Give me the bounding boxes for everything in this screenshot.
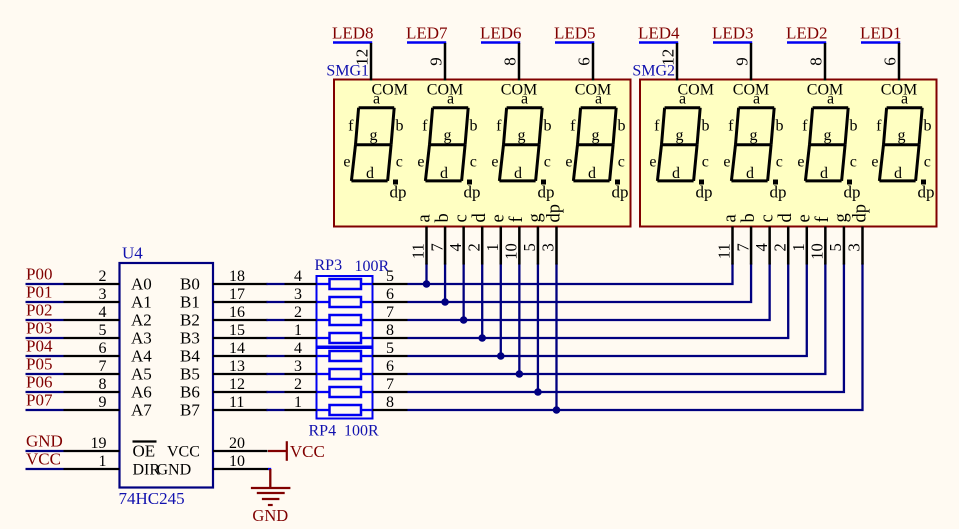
- SMG2 segment pin 11 (a): [715, 214, 741, 264]
- U4 pin name B7: [180, 401, 200, 420]
- svg-text:a: a: [679, 91, 686, 108]
- svg-text:g: g: [370, 127, 378, 144]
- U4 pin name GND: [157, 462, 192, 479]
- SMG1 digit 3 seven-segment symbol: [491, 82, 554, 202]
- U4 pin 3: [64, 286, 120, 303]
- svg-text:a: a: [827, 91, 834, 108]
- net label P03: [26, 319, 64, 339]
- svg-text:B0: B0: [180, 275, 200, 294]
- SMG2 digit 1 seven-segment symbol: [649, 82, 714, 202]
- svg-text:8: 8: [807, 57, 826, 66]
- svg-text:f: f: [348, 117, 354, 134]
- svg-text:8: 8: [386, 322, 394, 339]
- RP4 resistor element 3: [317, 387, 373, 397]
- junction: [516, 370, 524, 378]
- svg-text:4: 4: [294, 340, 302, 357]
- svg-text:P04: P04: [26, 337, 53, 356]
- power symbol VCC (U4 pin 20): [268, 441, 325, 461]
- resistor pack RP4 body: [317, 348, 373, 419]
- U4 pin name B1: [180, 293, 200, 312]
- svg-text:c: c: [757, 214, 777, 222]
- SMG2 segment pin 5 (g): [826, 213, 852, 264]
- SMG2 COM pin 8: [807, 43, 826, 81]
- svg-text:g: g: [898, 127, 906, 144]
- svg-text:2: 2: [770, 243, 789, 251]
- svg-text:a: a: [753, 91, 760, 108]
- svg-text:c: c: [618, 154, 625, 171]
- svg-text:b: b: [396, 117, 404, 134]
- IC U4 74HC245 octal bus transceiver body: [120, 263, 214, 488]
- svg-text:VCC: VCC: [26, 450, 61, 469]
- svg-text:a: a: [447, 91, 454, 108]
- RP3 pin 3: [285, 286, 317, 303]
- U4 pin 12: [213, 376, 268, 393]
- svg-text:a: a: [901, 91, 908, 108]
- net label LED8: [332, 23, 374, 42]
- U4 pin 7: [64, 358, 120, 375]
- svg-text:dp: dp: [544, 204, 564, 223]
- svg-text:COM: COM: [427, 82, 463, 99]
- junction: [553, 406, 561, 414]
- svg-text:d: d: [672, 165, 680, 182]
- svg-text:7: 7: [733, 243, 752, 251]
- svg-text:74HC245: 74HC245: [119, 489, 185, 508]
- svg-text:e: e: [565, 154, 572, 171]
- svg-text:c: c: [544, 154, 551, 171]
- SMG1 segment pin 1 (e): [483, 214, 509, 264]
- SMG2 segment pin 1 (e): [789, 214, 815, 264]
- svg-text:8: 8: [501, 57, 520, 66]
- U4 pin 18: [213, 268, 268, 285]
- U4 pin name A2: [131, 311, 152, 330]
- svg-text:f: f: [422, 117, 428, 134]
- svg-text:g: g: [832, 213, 852, 222]
- svg-text:5: 5: [99, 322, 107, 339]
- svg-text:P03: P03: [26, 319, 52, 338]
- svg-text:11: 11: [409, 243, 428, 259]
- svg-text:dp: dp: [612, 183, 629, 202]
- RP3 pin 6: [373, 286, 408, 303]
- wire segment net seg-e: [408, 264, 807, 357]
- wire: [267, 319, 285, 321]
- net label GND (pin 19): [26, 432, 64, 452]
- net label LED2: [786, 23, 828, 42]
- svg-text:RP4: RP4: [309, 423, 337, 440]
- SMG1 designator: [326, 63, 369, 80]
- svg-text:g: g: [824, 127, 832, 144]
- RP4 value 100R: [344, 423, 379, 440]
- svg-text:3: 3: [99, 286, 107, 303]
- svg-text:dp: dp: [918, 183, 935, 202]
- svg-text:g: g: [592, 127, 600, 144]
- svg-text:d: d: [746, 165, 754, 182]
- svg-text:d: d: [588, 165, 596, 182]
- svg-text:COM: COM: [881, 82, 917, 99]
- svg-text:2: 2: [294, 376, 302, 393]
- svg-text:100R: 100R: [344, 423, 379, 440]
- svg-text:g: g: [676, 127, 684, 144]
- svg-text:COM: COM: [501, 82, 537, 99]
- svg-text:100R: 100R: [355, 258, 390, 275]
- svg-text:2: 2: [464, 243, 483, 251]
- SMG2 digit 2 seven-segment symbol: [723, 82, 786, 202]
- svg-text:f: f: [496, 117, 502, 134]
- junction: [460, 316, 468, 324]
- SMG1 COM pin 12: [353, 43, 372, 81]
- SMG2 segment pin 4 (c): [752, 214, 778, 264]
- junction: [534, 388, 542, 396]
- net label P07: [26, 391, 64, 411]
- wire segment net seg-b: [408, 264, 752, 303]
- net label P05: [26, 355, 64, 375]
- svg-text:12: 12: [353, 49, 372, 66]
- svg-text:a: a: [521, 91, 528, 108]
- SMG1 segment pin 11 (a): [409, 214, 435, 264]
- U4 pin 4: [64, 304, 120, 321]
- net label LED4: [638, 23, 680, 42]
- svg-text:LED3: LED3: [712, 23, 754, 42]
- SMG2 COM pin 9: [733, 43, 752, 81]
- SMG1 digit 2 seven-segment symbol: [417, 82, 480, 202]
- svg-text:c: c: [850, 154, 857, 171]
- svg-text:LED1: LED1: [860, 23, 902, 42]
- net label LED6: [480, 23, 522, 42]
- SMG1 COM pin 6: [575, 43, 594, 81]
- U4 pin 20: [213, 435, 268, 452]
- wire: [518, 264, 520, 375]
- net label VCC (pin 1): [26, 450, 64, 470]
- wire: [425, 264, 427, 285]
- svg-text:5: 5: [386, 268, 394, 285]
- svg-text:P05: P05: [26, 355, 52, 374]
- U4 designator: [122, 244, 143, 263]
- svg-text:B1: B1: [180, 293, 200, 312]
- U4 pin 17: [213, 286, 268, 303]
- svg-text:19: 19: [91, 435, 107, 452]
- svg-text:a: a: [595, 91, 602, 108]
- svg-text:c: c: [396, 154, 403, 171]
- U4 pin name OE (active low): [133, 442, 157, 461]
- SMG2 segment pin 2 (d): [770, 213, 796, 265]
- RP3 pin 8: [373, 322, 408, 339]
- U4 pin 6: [64, 340, 120, 357]
- SMG2 segment pin 10 (f): [808, 216, 834, 265]
- svg-text:e: e: [417, 154, 424, 171]
- net label P02: [26, 301, 64, 321]
- RP4 pin 7: [373, 376, 408, 393]
- U4 pin 2: [64, 268, 120, 285]
- svg-text:g: g: [526, 213, 546, 222]
- svg-text:4: 4: [752, 243, 771, 251]
- svg-text:4: 4: [99, 304, 107, 321]
- U4 pin name B2: [180, 311, 200, 330]
- svg-text:b: b: [776, 117, 784, 134]
- svg-text:10: 10: [808, 243, 827, 260]
- svg-text:3: 3: [294, 358, 302, 375]
- svg-text:d: d: [366, 165, 374, 182]
- svg-text:d: d: [514, 165, 522, 182]
- U4 pin 15: [213, 322, 268, 339]
- svg-text:11: 11: [229, 394, 244, 411]
- svg-text:P07: P07: [26, 391, 53, 410]
- SMG2 digit 4 seven-segment symbol: [871, 82, 934, 202]
- net label P06: [26, 373, 64, 393]
- SMG1 COM pin 8: [501, 43, 520, 81]
- net label P04: [26, 337, 64, 357]
- svg-text:P02: P02: [26, 301, 52, 320]
- svg-text:e: e: [795, 214, 815, 222]
- svg-text:e: e: [723, 154, 730, 171]
- svg-text:dp: dp: [696, 183, 713, 202]
- svg-text:P06: P06: [26, 373, 52, 392]
- RP3 designator: [315, 257, 343, 274]
- svg-text:COM: COM: [733, 82, 769, 99]
- SMG1 segment pin 2 (d): [464, 213, 490, 265]
- SMG1 segment pin 7 (b): [427, 213, 453, 264]
- RP4 pin 2: [285, 376, 317, 393]
- U4 pin name A0: [131, 275, 152, 294]
- U4 pin name A5: [131, 365, 152, 384]
- junction: [497, 352, 505, 360]
- svg-text:g: g: [444, 127, 452, 144]
- svg-text:c: c: [470, 154, 477, 171]
- svg-text:14: 14: [229, 340, 245, 357]
- svg-text:8: 8: [386, 394, 394, 411]
- SMG1 COM pin 9: [427, 43, 446, 81]
- U4 pin 8: [64, 376, 120, 393]
- svg-text:15: 15: [229, 322, 245, 339]
- U4 pin 11: [213, 394, 268, 411]
- RP4 resistor element 1: [317, 351, 373, 361]
- svg-text:7: 7: [99, 358, 107, 375]
- resistor pack RP3 body: [317, 276, 373, 347]
- svg-text:3: 3: [294, 286, 302, 303]
- SMG2 segment pin 7 (b): [733, 213, 759, 264]
- svg-text:LED2: LED2: [786, 23, 828, 42]
- svg-text:A2: A2: [131, 311, 152, 330]
- RP4 designator: [309, 423, 337, 440]
- wire: [267, 391, 285, 393]
- RP3 resistor element 1: [317, 279, 373, 289]
- svg-text:6: 6: [386, 358, 394, 375]
- RP4 pin 8: [373, 394, 408, 411]
- svg-text:e: e: [343, 154, 350, 171]
- svg-text:b: b: [924, 117, 932, 134]
- RP4 pin 4: [285, 340, 317, 357]
- svg-text:A4: A4: [131, 347, 152, 366]
- U4 pin name A4: [131, 347, 152, 366]
- SMG1 digit 4 seven-segment symbol: [565, 82, 628, 202]
- wire: [267, 337, 285, 339]
- junction: [441, 298, 449, 306]
- U4 pin name B3: [180, 329, 200, 348]
- svg-text:e: e: [649, 154, 656, 171]
- svg-text:12: 12: [659, 49, 678, 66]
- svg-text:B2: B2: [180, 311, 200, 330]
- net label LED7: [406, 23, 448, 42]
- svg-text:13: 13: [229, 358, 245, 375]
- SMG2 COM pin 12: [659, 43, 678, 81]
- wire: [267, 409, 285, 411]
- wire: [444, 264, 446, 303]
- svg-text:COM: COM: [807, 82, 843, 99]
- RP3 pin 4: [285, 268, 317, 285]
- svg-text:VCC: VCC: [290, 442, 325, 461]
- svg-text:6: 6: [881, 57, 900, 66]
- svg-text:dp: dp: [390, 183, 407, 202]
- net label LED3: [712, 23, 754, 42]
- svg-text:f: f: [813, 216, 833, 223]
- wire: [268, 468, 271, 470]
- svg-text:5: 5: [386, 340, 394, 357]
- svg-text:B6: B6: [180, 383, 200, 402]
- SMG1 segment pin 10 (f): [502, 216, 528, 265]
- RP4 pin 1: [285, 394, 317, 411]
- RP4 resistor element 2: [317, 369, 373, 379]
- U4 pin 13: [213, 358, 268, 375]
- RP3 pin 5: [373, 268, 408, 285]
- svg-text:c: c: [924, 154, 931, 171]
- wire segment net seg-c: [408, 264, 770, 321]
- svg-text:dp: dp: [464, 183, 481, 202]
- wire segment net seg-d: [408, 264, 789, 339]
- 7-segment display module SMG2 body: [640, 80, 937, 227]
- svg-text:1: 1: [294, 322, 302, 339]
- wire segment net seg-dp: [408, 264, 863, 411]
- U4 pin name VCC: [167, 444, 200, 461]
- SMG1 segment pin 5 (g): [520, 213, 546, 264]
- svg-text:OE: OE: [133, 442, 156, 461]
- svg-text:RP3: RP3: [315, 257, 343, 274]
- RP4 resistor element 4: [317, 405, 373, 415]
- svg-text:P01: P01: [26, 283, 52, 302]
- svg-text:1: 1: [99, 453, 107, 470]
- RP3 pin 1: [285, 322, 317, 339]
- U4 part number 74HC245: [119, 489, 185, 508]
- svg-text:b: b: [433, 213, 453, 222]
- RP3 pin 2: [285, 304, 317, 321]
- wire segment net seg-f: [408, 264, 826, 375]
- U4 pin 19: [64, 435, 120, 452]
- wire: [267, 301, 285, 303]
- svg-text:VCC: VCC: [167, 444, 200, 461]
- U4 pin 1: [64, 453, 120, 470]
- svg-text:5: 5: [520, 243, 539, 251]
- SMG2 digit 3 seven-segment symbol: [797, 82, 860, 202]
- svg-text:P00: P00: [26, 265, 52, 284]
- svg-text:GND: GND: [157, 462, 192, 479]
- U4 pin name B0: [180, 275, 200, 294]
- svg-text:7: 7: [427, 243, 446, 251]
- svg-text:A5: A5: [131, 365, 152, 384]
- U4 pin name DIR: [133, 462, 161, 479]
- svg-text:dp: dp: [844, 183, 861, 202]
- svg-text:dp: dp: [850, 204, 870, 223]
- svg-text:LED6: LED6: [480, 23, 522, 42]
- wire: [267, 373, 285, 375]
- U4 pin 5: [64, 322, 120, 339]
- svg-text:B4: B4: [180, 347, 200, 366]
- svg-text:10: 10: [502, 243, 521, 260]
- svg-text:LED5: LED5: [554, 23, 596, 42]
- RP3 resistor element 3: [317, 315, 373, 325]
- svg-text:e: e: [489, 214, 509, 222]
- svg-text:f: f: [802, 117, 808, 134]
- svg-text:dp: dp: [770, 183, 787, 202]
- svg-text:B5: B5: [180, 365, 200, 384]
- RP4 pin 6: [373, 358, 408, 375]
- svg-text:1: 1: [789, 243, 808, 251]
- SMG1 digit 1 seven-segment symbol: [343, 82, 408, 202]
- svg-text:12: 12: [229, 376, 245, 393]
- wire: [537, 264, 539, 393]
- svg-text:c: c: [451, 214, 471, 222]
- svg-text:COM: COM: [575, 82, 611, 99]
- SMG2 segment pin 3 (dp): [845, 204, 871, 265]
- wire: [500, 264, 502, 357]
- svg-text:b: b: [850, 117, 858, 134]
- wire: [462, 264, 464, 321]
- svg-text:1: 1: [483, 243, 502, 251]
- svg-text:9: 9: [733, 57, 752, 66]
- net label LED5: [554, 23, 596, 42]
- RP3 resistor element 2: [317, 297, 373, 307]
- svg-text:f: f: [507, 216, 527, 223]
- RP4 pin 5: [373, 340, 408, 357]
- svg-text:9: 9: [99, 394, 107, 411]
- svg-text:dp: dp: [538, 183, 555, 202]
- SMG2 designator: [632, 63, 675, 80]
- svg-text:B7: B7: [180, 401, 200, 420]
- SMG1 segment pin 4 (c): [446, 214, 472, 264]
- svg-text:18: 18: [229, 268, 245, 285]
- svg-text:7: 7: [386, 376, 394, 393]
- svg-text:3: 3: [539, 243, 558, 251]
- svg-text:A6: A6: [131, 383, 152, 402]
- svg-text:d: d: [894, 165, 902, 182]
- SMG1 segment pin 3 (dp): [539, 204, 565, 265]
- svg-text:6: 6: [99, 340, 107, 357]
- U4 pin 10: [213, 453, 269, 470]
- svg-text:f: f: [876, 117, 882, 134]
- wire segment net seg-a: [408, 264, 733, 285]
- svg-text:A1: A1: [131, 293, 152, 312]
- svg-text:d: d: [820, 165, 828, 182]
- U4 pin name A1: [131, 293, 152, 312]
- svg-text:4: 4: [294, 268, 302, 285]
- wire: [267, 283, 285, 285]
- wire: [267, 355, 285, 357]
- svg-text:LED7: LED7: [406, 23, 448, 42]
- svg-text:c: c: [702, 154, 709, 171]
- svg-text:B3: B3: [180, 329, 200, 348]
- U4 pin name A3: [131, 329, 152, 348]
- svg-text:3: 3: [845, 243, 864, 251]
- svg-text:A3: A3: [131, 329, 152, 348]
- svg-text:d: d: [776, 213, 796, 223]
- U4 pin name A7: [131, 401, 152, 420]
- svg-text:5: 5: [826, 243, 845, 251]
- svg-text:GND: GND: [26, 432, 63, 451]
- svg-text:6: 6: [386, 286, 394, 303]
- svg-text:A0: A0: [131, 275, 152, 294]
- svg-text:e: e: [797, 154, 804, 171]
- svg-text:c: c: [776, 154, 783, 171]
- svg-text:f: f: [728, 117, 734, 134]
- svg-text:LED8: LED8: [332, 23, 374, 42]
- 7-segment display module SMG1 body: [334, 80, 631, 227]
- svg-text:4: 4: [446, 243, 465, 251]
